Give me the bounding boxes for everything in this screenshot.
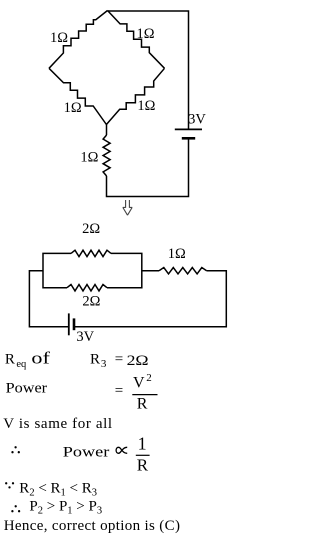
svg-text:of: of bbox=[31, 348, 50, 367]
svg-text:2Ω: 2Ω bbox=[82, 294, 100, 310]
svg-text:1Ω: 1Ω bbox=[80, 149, 98, 165]
svg-text:Hence, correct option is (C): Hence, correct option is (C) bbox=[4, 518, 180, 534]
svg-text:1Ω: 1Ω bbox=[137, 98, 155, 114]
svg-text:Power: Power bbox=[63, 445, 110, 461]
svg-text:eq: eq bbox=[16, 359, 27, 370]
svg-text:3V: 3V bbox=[188, 111, 206, 127]
svg-text:2Ω: 2Ω bbox=[127, 353, 149, 369]
svg-text:=: = bbox=[115, 351, 123, 367]
svg-text:R: R bbox=[137, 455, 149, 474]
svg-text:1Ω: 1Ω bbox=[50, 30, 68, 46]
svg-text:2: 2 bbox=[146, 372, 152, 384]
svg-text:V: V bbox=[133, 374, 145, 391]
svg-text:3V: 3V bbox=[76, 329, 94, 345]
svg-text:V is same for all: V is same for all bbox=[3, 416, 112, 432]
svg-text:=: = bbox=[115, 383, 123, 399]
svg-text:1Ω: 1Ω bbox=[136, 26, 154, 42]
svg-text:3: 3 bbox=[101, 358, 107, 370]
svg-text:1: 1 bbox=[138, 433, 147, 453]
svg-text:R2 < R1 < R3: R2 < R1 < R3 bbox=[19, 480, 97, 498]
svg-text:P2 > P1 > P3: P2 > P1 > P3 bbox=[29, 499, 102, 517]
svg-text:R: R bbox=[90, 351, 100, 367]
svg-text:1Ω: 1Ω bbox=[168, 246, 186, 262]
svg-text:1Ω: 1Ω bbox=[64, 100, 82, 116]
svg-text:R: R bbox=[137, 395, 148, 412]
svg-text:R: R bbox=[5, 351, 15, 367]
svg-text:2Ω: 2Ω bbox=[82, 221, 100, 237]
svg-text:Power: Power bbox=[6, 381, 48, 397]
